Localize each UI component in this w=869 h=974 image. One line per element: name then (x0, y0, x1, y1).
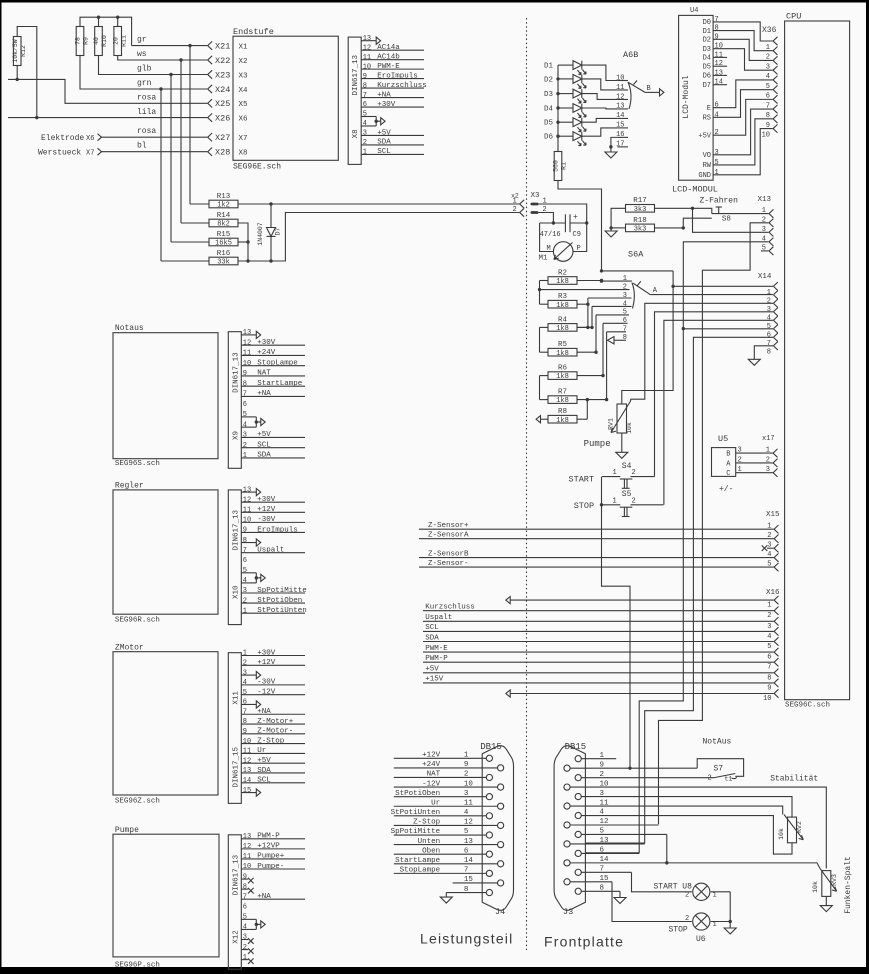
svg-text:2: 2 (685, 892, 689, 900)
connector X11 DIN617_15 pin 4 -30V (241, 679, 305, 687)
svg-text:ws: ws (137, 50, 147, 59)
svg-text:SEG96R.sch: SEG96R.sch (115, 617, 160, 625)
wire RV1 wiper to X14 pin3 (630, 399, 632, 401)
wire R18 to S8 lower (683, 218, 712, 228)
svg-text:Ur: Ur (257, 747, 266, 755)
J4 pin 5 SpPotiMitte (391, 828, 487, 836)
wire Z-Sensor+ (419, 522, 774, 530)
svg-text:AC14a: AC14a (377, 44, 400, 52)
resistor R3 (548, 293, 577, 310)
svg-text:S5: S5 (622, 490, 632, 499)
svg-text:R13: R13 (217, 193, 231, 201)
svg-text:SEG96Z.sch: SEG96Z.sch (115, 798, 160, 806)
svg-text:-30V: -30V (257, 516, 276, 524)
wire X14 pin4 line (655, 312, 774, 477)
svg-text:START U8: START U8 (654, 883, 693, 892)
svg-text:D4: D4 (544, 106, 554, 114)
svg-text:8: 8 (243, 883, 247, 891)
ground X14 pin8 (748, 359, 760, 365)
connector X8 DIN617_13 pin 10 PWM-E (361, 63, 424, 71)
svg-text:EroImpuls: EroImpuls (257, 526, 298, 534)
svg-text:1k8: 1k8 (556, 278, 569, 286)
svg-text:EroImpuls: EroImpuls (377, 72, 418, 80)
switch S4 START (569, 462, 655, 488)
wire R18 right node (655, 226, 686, 229)
J3 pin 11 number (600, 799, 610, 807)
J3 pin1 stub (581, 758, 616, 760)
svg-text:DB15: DB15 (480, 742, 502, 752)
wire contact7 to R7 right (577, 332, 608, 402)
ground U6 (724, 928, 736, 934)
svg-text:6: 6 (623, 317, 627, 325)
svg-text:2: 2 (685, 915, 689, 923)
switch S7 NotAus (703, 738, 737, 783)
label rosa lower (137, 127, 156, 136)
svg-text:AC14b: AC14b (377, 53, 400, 61)
resistor R1 560 (553, 152, 568, 181)
J4 pin 10 -12V (394, 780, 498, 788)
resistor R8 (548, 408, 577, 425)
svg-text:5: 5 (243, 689, 247, 697)
wire X3 pin2 to C9 minus (539, 213, 554, 224)
svg-text:X8: X8 (239, 150, 248, 158)
svg-text:StPotiUnten: StPotiUnten (257, 607, 307, 615)
svg-text:1: 1 (767, 289, 771, 297)
svg-text:X22: X22 (215, 56, 230, 66)
wire RV3 bottom ground (825, 896, 827, 905)
svg-text:1k8: 1k8 (556, 417, 569, 425)
svg-text:-12V: -12V (257, 688, 276, 696)
S6A contact3 line (588, 297, 632, 299)
motor M1 (539, 242, 581, 263)
svg-text:10k: 10k (626, 422, 633, 434)
LED D4 (544, 104, 586, 118)
wire D5 to contact14 (582, 118, 618, 122)
J3 pin 7 number (600, 866, 605, 874)
svg-text:SEG96P.sch: SEG96P.sch (115, 962, 160, 970)
svg-text:LCD-Modul: LCD-Modul (682, 75, 691, 118)
svg-text:Pumpe: Pumpe (584, 439, 611, 449)
svg-text:20: 20 (112, 37, 119, 45)
svg-text:RW: RW (703, 162, 712, 170)
svg-text:4: 4 (243, 679, 247, 687)
wire feed to RV1 top (622, 286, 673, 404)
svg-text:+NA: +NA (377, 91, 391, 99)
svg-text:Kurzschluss: Kurzschluss (377, 82, 427, 90)
wire LCD GND to X36 pin10 (713, 129, 773, 175)
svg-text:+30V: +30V (257, 339, 276, 347)
svg-text:R9: R9 (83, 37, 90, 45)
svg-text:9: 9 (243, 527, 247, 535)
svg-text:M1: M1 (539, 255, 549, 263)
connector X10 DIN617_13 pin 2 StPotiOben (241, 597, 305, 605)
wire M1 loop right (573, 223, 587, 252)
connector X12 DIN617_13 pin 6 (243, 903, 247, 911)
wire X16 pin1 arrow line (506, 597, 774, 604)
label glb (137, 65, 152, 74)
switch S6A arc (632, 283, 634, 309)
svg-text:SEG96S.sch: SEG96S.sch (115, 460, 160, 468)
connector X8 DIN617_13 pin 2 SDA (361, 139, 424, 147)
svg-text:A6B: A6B (623, 50, 638, 60)
svg-text:10k/5W: 10k/5W (12, 39, 19, 63)
svg-text:8k2: 8k2 (217, 221, 230, 229)
svg-text:+5V: +5V (698, 132, 711, 140)
connector X12 DIN617_13 pin 1 nc (241, 954, 253, 964)
J4 pin 2 NAT (394, 771, 486, 779)
label S6A (628, 250, 644, 260)
wire S6A feed to X14 pin1 (600, 269, 675, 288)
svg-text:2: 2 (243, 944, 247, 952)
svg-text:2: 2 (767, 612, 771, 620)
svg-text:D1: D1 (544, 63, 554, 71)
svg-text:3k3: 3k3 (634, 206, 647, 214)
svg-text:DIN617_15: DIN617_15 (232, 746, 240, 787)
svg-text:6: 6 (243, 903, 247, 911)
wire contacts 16 17 to ground (609, 137, 617, 152)
connector X11 DIN617_15 body (228, 653, 241, 804)
connector X21-X28 (208, 41, 230, 157)
wire X14 pin5 line (664, 320, 773, 505)
svg-text:Z-Fahren: Z-Fahren (700, 196, 739, 205)
svg-text:15: 15 (243, 787, 251, 795)
J4 pin 7 StopLampe (394, 867, 486, 875)
wire X14 pin8 ground (754, 346, 773, 360)
S6A contact8 arrow (608, 337, 627, 344)
svg-text:5: 5 (363, 111, 367, 119)
resistor R15 (209, 231, 238, 248)
svg-text:3: 3 (738, 447, 742, 455)
J3 pin 8 number (600, 884, 605, 892)
wire LED cathode bus (556, 65, 559, 152)
svg-text:7: 7 (243, 708, 247, 716)
svg-text:11: 11 (243, 853, 251, 861)
block CPU (785, 12, 850, 710)
lamp U8 START (654, 883, 717, 901)
wire J3 pin4 to RV2 bottom (581, 816, 792, 855)
wire R12 bottom (16, 66, 19, 82)
svg-text:11: 11 (243, 748, 251, 756)
connector X11 DIN617_15 pin 8 Z-Motor+ (241, 718, 305, 726)
svg-text:16: 16 (616, 131, 624, 139)
block Notaus (113, 324, 218, 468)
svg-text:J4: J4 (495, 907, 505, 917)
resistor R5 (548, 341, 577, 358)
wire X14 pin6 line (585, 329, 773, 853)
svg-text:9: 9 (243, 728, 247, 736)
svg-text:R17: R17 (633, 197, 647, 205)
svg-text:DB15: DB15 (565, 742, 587, 752)
wire R3 R4 right link (577, 304, 590, 329)
wire C9 left node (540, 221, 566, 224)
wire PWM-E (423, 645, 774, 653)
svg-text:13: 13 (616, 103, 624, 111)
top bus of R9 R10 R11 (80, 16, 132, 46)
svg-text:X5: X5 (239, 101, 249, 109)
svg-text:D0: D0 (703, 19, 711, 27)
svg-text:3: 3 (767, 306, 771, 314)
svg-text:R11: R11 (120, 35, 127, 47)
svg-text:+: + (573, 213, 578, 222)
svg-text:2: 2 (767, 297, 771, 305)
wire START STOP chain down (602, 477, 631, 768)
wire PWM-P (423, 655, 774, 663)
svg-text:D3: D3 (544, 91, 554, 99)
svg-text:12: 12 (243, 496, 251, 504)
block Pumpe (113, 826, 219, 969)
J3 pin 5 number (600, 828, 605, 836)
wire R13 left (190, 203, 209, 205)
svg-text:+/-: +/- (719, 485, 733, 494)
connector X11 DIN617_15 pin 14 SCL (241, 777, 305, 785)
svg-text:X26: X26 (215, 113, 230, 123)
wire LCD RS to X36 pin6 (713, 90, 773, 118)
svg-text:7: 7 (767, 340, 771, 348)
J3 pin 4 number (600, 809, 605, 817)
connector X10 DIN617_13 pin 1 StPotiUnten (241, 607, 307, 615)
svg-text:10k: 10k (812, 881, 819, 893)
svg-text:1N4007: 1N4007 (257, 222, 264, 246)
svg-text:R14: R14 (217, 212, 231, 220)
svg-text:VO: VO (703, 152, 711, 160)
svg-text:R1: R1 (561, 162, 568, 170)
svg-text:6: 6 (767, 654, 771, 662)
svg-text:rosa: rosa (137, 94, 156, 103)
wire LCD +5V to X36 pin7 (713, 99, 773, 135)
LCD-Modul pin labels (698, 16, 727, 180)
S6A contact5 line (596, 314, 629, 316)
svg-text:X15: X15 (766, 511, 780, 519)
diode D7 1N4007 (257, 204, 282, 261)
wire X13 pin3 from R17 node (693, 208, 769, 232)
connector X12 DIN617_13 pin 7 +NA (241, 893, 305, 901)
svg-text:2: 2 (708, 775, 712, 783)
connector X12 DIN617_13 pin 13 PWM-P (241, 833, 305, 841)
wire X14 pin1 line (673, 285, 773, 287)
potentiometer RV2 10k (778, 815, 803, 843)
svg-text:glb: glb (137, 65, 152, 74)
svg-text:3: 3 (243, 432, 247, 440)
svg-text:X23: X23 (215, 70, 230, 80)
svg-text:START: START (569, 475, 595, 485)
connector X11 DIN617_15 pin 2 +12V (241, 659, 305, 667)
wire RV1 bottom ground (621, 433, 623, 452)
svg-text:1: 1 (613, 497, 617, 505)
connector X12 DIN617_13 body (228, 835, 241, 969)
connector X9 DIN617_13 pin 3 +5V (241, 431, 305, 439)
label gr (137, 36, 147, 45)
svg-text:B: B (647, 85, 651, 93)
svg-text:9: 9 (243, 370, 247, 378)
connector X9 DIN617_13 pin 9 NAT (241, 370, 305, 378)
wire +15V (423, 676, 774, 684)
J3 pin 12 number (600, 818, 609, 826)
wire glb X23 net (99, 56, 208, 243)
connector X9 DIN617_13 pin 7 +NA (241, 390, 305, 398)
svg-text:D2: D2 (703, 37, 711, 45)
svg-text:X13: X13 (758, 196, 772, 204)
svg-text:E: E (707, 105, 711, 113)
svg-text:X24: X24 (215, 85, 230, 95)
svg-text:R2: R2 (558, 269, 567, 277)
connector X8 DIN617_13 body (348, 37, 361, 164)
connector X10 DIN617_13 pins bracket (241, 567, 265, 585)
connector X12 DIN617_13 pin 10 Pumpe- (241, 863, 305, 871)
wire D3 to contact12 (582, 94, 618, 100)
svg-text:D3: D3 (703, 46, 711, 54)
J3 pin 10 number (600, 780, 610, 788)
svg-text:D1: D1 (703, 28, 711, 36)
svg-text:2: 2 (363, 139, 367, 147)
dotted separator Leistungsteil/Frontplatte (526, 18, 528, 950)
svg-text:S6A: S6A (628, 250, 644, 260)
svg-text:Pumpe+: Pumpe+ (257, 853, 285, 861)
J4 pin 6 Oben (394, 847, 486, 855)
svg-text:X12: X12 (232, 930, 240, 944)
svg-text:4: 4 (363, 120, 367, 128)
svg-text:SDA: SDA (257, 767, 271, 775)
svg-text:R3: R3 (558, 293, 568, 301)
wire J3 pin11 to RV2 wiper (570, 806, 783, 814)
svg-text:4: 4 (243, 924, 247, 932)
svg-text:t1: t1 (725, 776, 733, 783)
svg-text:+30V: +30V (257, 496, 276, 504)
switch S8 (693, 207, 731, 224)
svg-text:D6: D6 (703, 73, 711, 81)
J3 pin 3 number (600, 790, 605, 798)
svg-text:8: 8 (767, 348, 771, 356)
block Regler (113, 482, 218, 625)
svg-text:R18: R18 (633, 217, 647, 225)
Endstufe pin labels X1-X8 (239, 43, 249, 157)
svg-text:2: 2 (243, 597, 247, 605)
svg-text:+5V: +5V (257, 757, 271, 765)
connector X11 DIN617_15 pin 1 +30V (241, 649, 305, 657)
svg-text:+30V: +30V (377, 101, 396, 109)
svg-text:3k3: 3k3 (634, 226, 647, 234)
wire gr X21 net (132, 44, 208, 204)
J3 pin holes (564, 756, 581, 895)
resistor R4 (548, 316, 577, 333)
ground J3 pin8 (614, 898, 626, 904)
switch A6B wiper (623, 50, 664, 109)
connector X8 DIN617_13 pin 9 EroImpuls (361, 72, 424, 80)
connector X12 DIN617_13 pin 9 nc (241, 873, 253, 883)
svg-text:14: 14 (616, 112, 624, 120)
svg-text:GND: GND (698, 172, 711, 180)
svg-text:1: 1 (243, 954, 247, 962)
node Werstueck X7 (38, 148, 208, 158)
svg-text:1k8: 1k8 (556, 397, 569, 405)
connector X11 DIN617_15 pin 12 +5V (241, 757, 305, 765)
svg-text:4: 4 (623, 300, 627, 308)
svg-text:X10: X10 (232, 585, 240, 599)
lamp U6 STOP (669, 913, 717, 944)
svg-text:D5: D5 (703, 63, 711, 71)
label Leistungsteil (420, 931, 513, 947)
svg-text:10: 10 (243, 863, 251, 871)
wire LCD RW to X36 pin9 (713, 119, 773, 165)
svg-text:17: 17 (616, 141, 624, 149)
svg-text:Regler: Regler (115, 482, 144, 491)
wire U8 to U6 node (711, 892, 732, 923)
resistor R8 left arrow (536, 416, 548, 423)
connector X9 DIN617_13 pin 8 StartLampe (241, 380, 305, 388)
svg-text:3: 3 (243, 587, 247, 595)
svg-text:4: 4 (243, 421, 247, 429)
svg-text:2: 2 (632, 497, 636, 505)
svg-text:5: 5 (767, 323, 771, 331)
wire U5 C (736, 466, 773, 474)
J3 pin 13 number (600, 837, 610, 845)
svg-text:2: 2 (715, 129, 719, 137)
ground R18 (605, 231, 617, 237)
connector X8 DIN617_13 pins bracket (361, 111, 385, 128)
wire R2 R3 left link (540, 281, 549, 305)
svg-text:Z-Stop: Z-Stop (257, 737, 284, 745)
resistor R2 (548, 269, 577, 286)
svg-text:33k: 33k (217, 259, 230, 267)
svg-text:X7: X7 (86, 150, 94, 158)
connector X11 DIN617_15 pin 6 arrow (241, 699, 260, 708)
wire D4 to contact13 (582, 107, 618, 110)
svg-text:1: 1 (738, 466, 742, 474)
svg-text:CPU: CPU (786, 12, 801, 22)
svg-text:S8: S8 (722, 216, 731, 224)
svg-text:5: 5 (243, 411, 247, 419)
connector X15 (766, 511, 780, 571)
wire ws X22 net (118, 56, 208, 224)
connector X12 DIN617_13 pins bracket (241, 914, 265, 932)
svg-text:SEG96C.sch: SEG96C.sch (785, 702, 830, 710)
svg-text:X7: X7 (239, 135, 248, 143)
svg-text:+12V: +12V (257, 506, 276, 514)
label bl (137, 142, 147, 151)
svg-text:3: 3 (715, 149, 719, 157)
connector X11 DIN617_15 pin 10 Z-Stop (241, 737, 305, 745)
J4 pin 13 Unten (394, 838, 498, 846)
wire J3 pin7 to U8 (581, 872, 691, 891)
connector X9 DIN617_13 pin 1 SDA (241, 452, 305, 460)
connector X10 DIN617_13 pin 11 +12V (241, 506, 305, 514)
wire lila X26 net (8, 116, 208, 119)
svg-text:3: 3 (767, 623, 771, 631)
connector X14 (758, 273, 778, 356)
svg-text:2: 2 (738, 456, 742, 464)
svg-text:R15: R15 (217, 231, 231, 239)
svg-text:DIN617_13: DIN617_13 (352, 55, 360, 96)
svg-text:P: P (577, 245, 581, 253)
J4 pin 1 +12V (394, 752, 486, 760)
svg-text:DIN617_13: DIN617_13 (232, 854, 240, 895)
ground J4 (440, 897, 452, 903)
wire J3 pin3 to RV2 top (581, 797, 792, 818)
connector X12 DIN617_13 pin 2 nc (241, 944, 253, 954)
svg-text:6: 6 (243, 557, 247, 565)
label grn (137, 79, 152, 88)
svg-text:10k: 10k (778, 828, 785, 840)
svg-text:13: 13 (243, 486, 251, 494)
capacitor C9 (540, 213, 581, 239)
wire X13 pin2 route (659, 223, 769, 824)
J4 pin 14 StartLampe (394, 857, 498, 865)
connector X12 DIN617_13 pin 12 +12VP (241, 843, 305, 851)
wire LCD D2 to X36 pin3 (713, 39, 773, 60)
svg-text:2: 2 (632, 469, 636, 477)
connector X8 DIN617_13 pin 3 +5V (361, 129, 424, 137)
wire X13 pin5 stub (761, 250, 769, 252)
wire X14 pin3 line (631, 303, 774, 399)
